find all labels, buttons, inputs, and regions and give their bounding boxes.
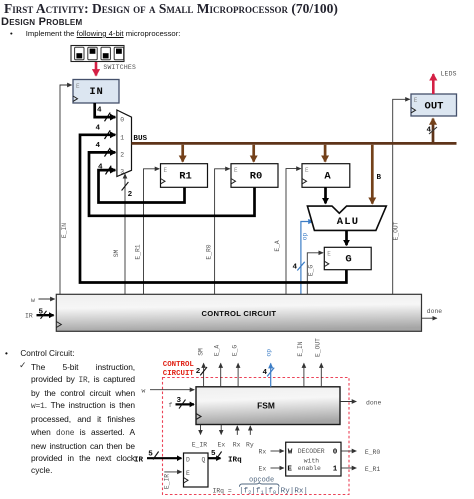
svg-text:SWITCHES: SWITCHES [103, 64, 136, 71]
svg-text:E_IN: E_IN [297, 341, 304, 356]
register G [324, 247, 371, 269]
svg-text:|f2|f1|f0|Ry|Rx|: |f2|f1|f0|Ry|Rx| [239, 488, 308, 497]
paragraph [31, 361, 135, 477]
mux [117, 110, 132, 177]
svg-text:R0: R0 [250, 170, 263, 182]
svg-text:5: 5 [211, 450, 216, 458]
svg-text:done: done [366, 399, 382, 406]
wire IRq output [208, 450, 242, 464]
svg-text:B: B [377, 174, 382, 182]
svg-text:Rx: Rx [259, 449, 267, 456]
svg-text:G: G [345, 254, 351, 266]
wire op (blue) [293, 222, 314, 295]
svg-text:IRq: IRq [228, 457, 242, 465]
svg-text:E_A: E_A [274, 240, 281, 252]
svg-text:Ex: Ex [259, 466, 267, 473]
flip-flop IR register [184, 453, 209, 487]
svg-text:E_OUT: E_OUT [315, 338, 322, 357]
register R1 [161, 164, 208, 188]
svg-text:4: 4 [96, 124, 101, 132]
svg-text:op: op [265, 349, 272, 357]
checkmark [19, 360, 27, 371]
wire R0 loop to mux input 2 [89, 142, 255, 216]
wire w to FSM [142, 387, 195, 394]
wire E_R0 [206, 169, 230, 295]
svg-text:E_IN: E_IN [61, 223, 68, 238]
wire ALU to G [345, 231, 348, 245]
svg-text:OUT: OUT [425, 101, 444, 113]
svg-text:E: E [414, 97, 418, 104]
svg-text:w: w [31, 297, 35, 304]
svg-text:enable: enable [298, 465, 321, 472]
op-amp shape ALU [307, 206, 386, 230]
svg-text:A: A [324, 170, 331, 182]
svg-text:3: 3 [177, 397, 182, 405]
title [4, 1, 338, 17]
svg-text:E_R0: E_R0 [365, 449, 381, 456]
svg-text:op: op [302, 233, 309, 241]
wire f to FSM [169, 397, 195, 409]
wire E_A out [214, 345, 221, 387]
wire SM out [196, 348, 207, 387]
wire E of flip-flop [164, 472, 182, 489]
svg-text:4: 4 [96, 142, 101, 150]
wire E_OUT out [315, 338, 322, 387]
svg-text:E_IR: E_IR [164, 474, 171, 489]
wire A to ALU [324, 187, 327, 203]
svg-text:E: E [234, 167, 238, 174]
label opcode with brace [240, 477, 280, 487]
wire bus to R0 [252, 145, 255, 162]
svg-text:opcode: opcode [249, 477, 274, 485]
svg-text:ALU: ALU [337, 216, 360, 228]
wire Rx to decoder [259, 449, 284, 456]
svg-text:E_G: E_G [232, 345, 239, 357]
svg-text:D: D [186, 456, 190, 463]
wire B to ALU [372, 145, 381, 204]
svg-text:Rx: Rx [233, 441, 241, 448]
wire Ry up [246, 426, 254, 448]
svg-text:w: w [142, 387, 146, 394]
svg-text:1: 1 [120, 134, 124, 141]
wire switches to IN [96, 62, 136, 76]
wire decoder 0 to E_R0 [341, 449, 380, 456]
wire bus to R1 [181, 145, 184, 162]
label IRq formula [213, 487, 309, 496]
wire E_IN out [297, 341, 304, 387]
svg-text:Ex: Ex [218, 441, 226, 448]
svg-text:2: 2 [196, 368, 201, 376]
svg-text:0: 0 [333, 449, 338, 457]
svg-text:with: with [304, 457, 320, 464]
svg-text:BUS: BUS [133, 135, 147, 143]
wire OUT to LEDS [433, 70, 456, 94]
svg-text:IRq =: IRq = [213, 487, 232, 494]
wire Ex down [218, 425, 226, 449]
svg-text:CIRCUIT: CIRCUIT [163, 370, 195, 378]
wire bus to OUT [427, 119, 438, 142]
svg-text:1: 1 [333, 466, 338, 474]
svg-text:CONTROL: CONTROL [163, 361, 195, 369]
svg-text:IR: IR [134, 456, 144, 464]
svg-text:E_R0: E_R0 [206, 244, 213, 259]
svg-text:LEDS: LEDS [441, 70, 457, 77]
svg-text:E_G: E_G [308, 265, 315, 277]
svg-text:FSM: FSM [257, 401, 275, 411]
wire R1 loop to mux input 3 [98, 163, 185, 202]
register IN [73, 80, 119, 104]
svg-text:4: 4 [97, 106, 102, 114]
svg-text:3: 3 [120, 169, 124, 176]
wire E_OUT [393, 99, 410, 294]
svg-text:2: 2 [120, 151, 124, 158]
dashed control-circuit boundary [163, 378, 350, 495]
FSM block [196, 387, 340, 425]
svg-text:IR: IR [25, 312, 33, 319]
svg-text:DECODER: DECODER [298, 448, 325, 455]
svg-text:E: E [305, 167, 309, 174]
svg-text:E: E [164, 167, 168, 174]
wire E_R1 [135, 169, 160, 295]
bus [132, 135, 457, 143]
svg-text:Q: Q [202, 456, 206, 463]
bullet control circuit [5, 349, 75, 358]
svg-text:E_OUT: E_OUT [393, 221, 400, 240]
svg-text:E_R1: E_R1 [365, 466, 381, 473]
register OUT [411, 94, 457, 116]
svg-text:SM: SM [113, 250, 120, 258]
svg-text:5: 5 [148, 451, 153, 459]
svg-text:E_IR: E_IR [192, 441, 208, 448]
svg-text:2: 2 [128, 191, 133, 199]
svg-text:4: 4 [98, 163, 103, 171]
wire IN to mux input 0 [95, 103, 116, 121]
register A [302, 164, 350, 188]
wire IR input [25, 308, 54, 319]
svg-text:SM: SM [197, 348, 204, 356]
control circuit box [56, 294, 421, 331]
svg-text:f: f [169, 402, 173, 409]
wire E_IN [60, 85, 72, 295]
wire done output [422, 308, 443, 318]
wire Ex to decoder [259, 466, 284, 473]
wire op out (blue) [263, 349, 275, 387]
wire IR input [134, 451, 181, 465]
wire bus to A [324, 145, 327, 162]
svg-text:E: E [76, 83, 80, 90]
svg-text:E: E [327, 251, 331, 258]
svg-text:E: E [186, 470, 190, 477]
svg-text:E_R1: E_R1 [135, 244, 142, 259]
decoder with enable [286, 442, 341, 476]
register R0 [231, 164, 278, 188]
svg-text:E_A: E_A [214, 345, 221, 357]
node SM line [113, 174, 133, 295]
svg-text:W: W [288, 448, 293, 456]
label CONTROL CIRCUIT (red) [163, 361, 195, 378]
heading Design Problem [1, 16, 82, 28]
wire E_A [274, 169, 301, 295]
wire Rx up [233, 426, 241, 448]
wire E_G out [232, 345, 239, 387]
svg-text:CONTROL CIRCUIT: CONTROL CIRCUIT [201, 309, 276, 318]
svg-text:4: 4 [263, 369, 268, 377]
svg-text:done: done [427, 308, 443, 315]
wire w input [31, 297, 55, 304]
svg-text:4: 4 [293, 264, 298, 272]
svg-text:IN: IN [89, 86, 103, 98]
wire E_IR down [192, 425, 208, 449]
svg-text:R1: R1 [179, 170, 192, 182]
bullet implement [10, 29, 180, 38]
switches icon [71, 46, 124, 62]
wire decoder 1 to E_R1 [341, 466, 380, 473]
svg-text:E: E [287, 465, 292, 473]
wire done from FSM [340, 399, 382, 406]
wire E_G [307, 253, 323, 295]
svg-text:0: 0 [120, 117, 124, 124]
svg-text:Ry: Ry [246, 441, 254, 448]
wire G loop to mux input 1 [80, 124, 346, 282]
